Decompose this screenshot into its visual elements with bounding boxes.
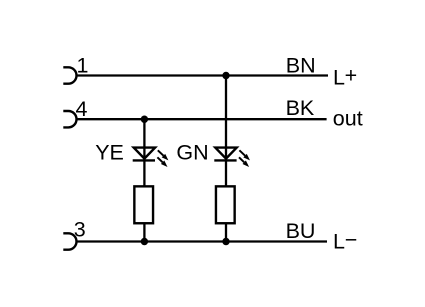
connector socket pin 3 [63,233,76,249]
connector socket pin 4 [63,111,76,127]
svg-text:4: 4 [76,97,88,121]
resistor R1 [134,186,153,223]
wire vertical GN branch [225,76,227,242]
junction dot wire4/YE [141,116,148,123]
svg-text:−: − [345,228,358,252]
junction dot wire3/GN [222,238,229,245]
LED D1 yellow [133,148,169,167]
svg-text:out: out [333,107,363,131]
junction dot wire1/GN [222,72,229,79]
svg-text:BU: BU [286,219,316,243]
LED D2 green [214,148,250,167]
svg-text:L: L [333,230,345,254]
junction dot wire3/YE [141,238,148,245]
svg-text:GN: GN [176,141,208,165]
svg-text:BK: BK [286,96,315,120]
svg-text:BN: BN [286,53,316,77]
resistor R2 [216,186,235,223]
wire BK net out [77,118,327,120]
svg-text:+: + [345,64,358,88]
svg-text:3: 3 [74,217,86,241]
wire BU net L- [77,240,328,242]
svg-text:1: 1 [77,54,89,78]
wire BN net L+ [77,74,329,76]
connector socket pin 1 [63,67,76,83]
svg-text:L: L [333,66,345,90]
wire vertical YE branch [143,119,145,241]
svg-text:YE: YE [95,141,124,165]
